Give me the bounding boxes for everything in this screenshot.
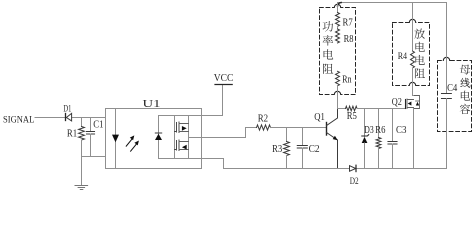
- svg-text:C3: C3: [396, 125, 406, 136]
- resistor R7: [336, 13, 353, 29]
- svg-text:R7: R7: [343, 18, 353, 29]
- ground: [75, 186, 88, 190]
- resistor Rn: [336, 71, 352, 85]
- svg-text:VCC: VCC: [214, 73, 234, 84]
- transistor Q1: [314, 109, 338, 169]
- svg-text:R6: R6: [375, 125, 385, 136]
- svg-text:SIGNAL: SIGNAL: [3, 115, 34, 125]
- wire U1 output to R2: [189, 128, 257, 138]
- LED in U1: [112, 109, 119, 169]
- wire C4 riser: [446, 3, 448, 94]
- wire R4 to Q2 drain: [413, 68, 414, 96]
- wire R7-R8: [337, 26, 339, 29]
- wire bottom rail: [224, 168, 447, 170]
- resistor R4: [398, 51, 415, 68]
- resistor R6: [375, 109, 385, 169]
- wire R4 top: [412, 3, 414, 52]
- resistor R5: [346, 106, 358, 122]
- wire signal input: [35, 117, 106, 119]
- label 放电电阻: [414, 29, 425, 79]
- wire R1/C1 bottom return: [82, 156, 106, 158]
- photodiode in U1: [155, 116, 162, 159]
- svg-text:Q1: Q1: [314, 112, 325, 123]
- capacitor C1: [87, 118, 104, 157]
- svg-text:C2: C2: [309, 144, 320, 155]
- bus capacitor dashed box 母线电容: [438, 57, 472, 131]
- power resistor group dashed box 功率电阻: [320, 4, 356, 96]
- optocoupler U1 box: [106, 109, 202, 169]
- mosfet M2 in U1: [175, 140, 189, 151]
- svg-text:R5: R5: [347, 111, 357, 122]
- svg-text:D1: D1: [63, 104, 71, 114]
- wire chain top: [337, 3, 339, 13]
- label 母线电容: [460, 65, 471, 115]
- diode D2: [350, 165, 359, 187]
- svg-text:R3: R3: [272, 144, 282, 155]
- light arrow 2: [131, 141, 139, 152]
- diode D1: [63, 104, 71, 121]
- svg-text:R1: R1: [67, 128, 77, 139]
- wire R2 to Q1 base: [271, 127, 327, 129]
- wire U1 top rail to VCC: [159, 85, 223, 116]
- zener diode D3: [362, 109, 374, 169]
- mosfet M1 in U1: [175, 122, 189, 133]
- optocoupler U1 label: [143, 98, 161, 110]
- capacitor C4: [442, 83, 458, 169]
- label 功率电阻: [323, 21, 334, 74]
- wire Q2 source to rail: [413, 109, 415, 169]
- svg-text:D2: D2: [350, 177, 359, 187]
- resistor R3: [272, 128, 289, 169]
- svg-text:Rn: Rn: [342, 75, 352, 86]
- wire node to R5: [338, 108, 346, 110]
- node SIGNAL input label: [3, 115, 34, 125]
- capacitor C2: [297, 128, 319, 169]
- wire U1 detector bottom to rail: [159, 159, 224, 169]
- svg-text:C4: C4: [447, 83, 457, 94]
- resistor R8: [336, 29, 354, 45]
- wire Rn to collector node: [337, 86, 339, 109]
- svg-text:R8: R8: [344, 34, 354, 45]
- wire U1 gate rail: [174, 116, 176, 159]
- wire top rail: [338, 3, 447, 7]
- resistor R2: [257, 113, 271, 130]
- svg-text:C1: C1: [93, 120, 103, 131]
- wire U1 mosfet bus: [188, 116, 190, 159]
- svg-text:Q2: Q2: [392, 97, 402, 108]
- resistor R1: [67, 118, 85, 157]
- wire R5 to Q2 gate: [357, 108, 406, 110]
- svg-text:R4: R4: [398, 52, 408, 62]
- capacitor C3: [388, 109, 406, 169]
- discharge resistor dashed box 放电电阻: [393, 19, 430, 87]
- svg-text:D3: D3: [364, 125, 373, 136]
- svg-text:R2: R2: [258, 113, 268, 124]
- light arrow 1: [126, 135, 134, 146]
- transistor Q2 mosfet: [392, 96, 420, 109]
- VCC power symbol: [214, 73, 234, 85]
- wire ground lead: [81, 157, 83, 186]
